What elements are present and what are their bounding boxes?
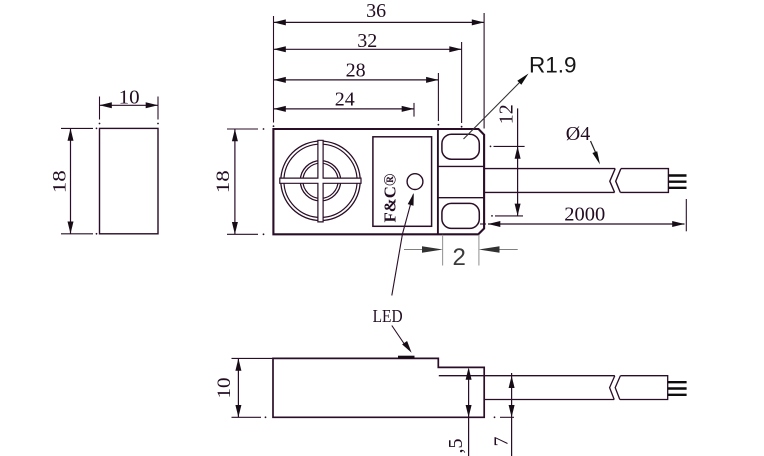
sensing face outer circle pair [281, 141, 360, 220]
diameter 4 label [566, 123, 600, 164]
end view body (10x18 rectangle) [100, 128, 159, 233]
svg-text:R1.9: R1.9 [529, 53, 577, 78]
dimension 28 [274, 60, 440, 126]
label box [373, 137, 432, 227]
LED indicator circle [407, 174, 423, 190]
dimension 10 (bottom view height) [214, 358, 273, 418]
cable break second chevron front [616, 169, 621, 193]
svg-text:2: 2 [453, 244, 466, 271]
svg-text:7: 7 [491, 437, 513, 447]
dimension 10 (end view width) [99, 87, 159, 125]
LED bump on bottom view [398, 356, 415, 359]
cable end segment bottom [620, 376, 668, 400]
F&C label text [380, 173, 399, 222]
dimension 36 [274, 0, 485, 128]
svg-text:2000: 2000 [564, 204, 605, 226]
bottom view outline [273, 358, 484, 417]
LED leader to bottom view [392, 326, 412, 353]
wire leads bottom [668, 382, 687, 395]
cable break second chevron bottom [615, 376, 620, 400]
svg-text:10: 10 [214, 378, 235, 399]
svg-text:LED: LED [373, 306, 403, 326]
svg-text:Ø4: Ø4 [566, 123, 590, 145]
crosshair plus bar [280, 140, 361, 222]
sensing face inner circle pair [300, 161, 340, 201]
cable end segment front [620, 169, 668, 193]
LED leader to front view [392, 193, 414, 296]
dimension 12 (slot centers) [490, 104, 525, 217]
front view body right edge [437, 129, 439, 234]
dimension 18 (end view height) [50, 127, 98, 234]
bottom edge dash-dot extension [494, 416, 514, 418]
dimension 32 [274, 30, 463, 128]
svg-text:28: 28 [346, 60, 366, 82]
svg-text:18: 18 [213, 170, 234, 193]
svg-text:18: 18 [50, 170, 71, 193]
svg-text:32: 32 [357, 30, 377, 52]
dimension 24 [274, 89, 415, 117]
svg-text:10: 10 [119, 87, 140, 109]
svg-text:F&C®: F&C® [380, 173, 399, 222]
svg-text:36: 36 [366, 0, 386, 22]
common left extension line for top dimensions [273, 16, 275, 127]
dimension 2000 (cable length) [480, 199, 686, 231]
svg-text:12: 12 [495, 104, 517, 124]
dimension 18 (front view height) [213, 128, 264, 235]
wire leads front [668, 176, 686, 188]
tab divider upper [438, 165, 484, 167]
cable bottom view lines [439, 376, 615, 400]
R1.9 annotation [464, 53, 577, 139]
LED label [373, 306, 403, 326]
mounting slot lower [442, 203, 479, 228]
dimension 8,5 (tab depth) [445, 367, 472, 456]
svg-text:,5: ,5 [445, 439, 467, 454]
front view body outline with chamfered tab corners [273, 129, 484, 234]
tab divider lower [438, 197, 484, 199]
dimension 7 (cable position) [491, 373, 515, 456]
cable front view first segment [484, 169, 615, 193]
dimension 2 (gray annotation) [404, 235, 518, 271]
mounting slot upper [442, 134, 479, 159]
svg-text:24: 24 [335, 89, 355, 111]
